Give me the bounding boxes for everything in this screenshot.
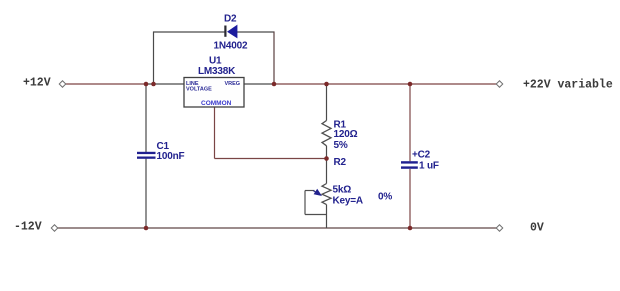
svg-text:VREG: VREG xyxy=(225,81,241,87)
svg-text:+12V: +12V xyxy=(23,77,51,90)
svg-text:5%: 5% xyxy=(334,140,348,151)
svg-text:1N4002: 1N4002 xyxy=(214,41,248,52)
svg-text:U1: U1 xyxy=(209,56,222,67)
svg-text:VOLTAGE: VOLTAGE xyxy=(186,87,212,93)
svg-text:+C2: +C2 xyxy=(412,150,431,161)
svg-text:1 uF: 1 uF xyxy=(419,161,439,172)
svg-text:5kΩ: 5kΩ xyxy=(333,185,352,196)
svg-text:120Ω: 120Ω xyxy=(334,129,358,140)
svg-text:+22V variable: +22V variable xyxy=(523,79,613,92)
svg-text:Key=A: Key=A xyxy=(333,196,363,207)
svg-text:100nF: 100nF xyxy=(157,151,185,162)
svg-text:R2: R2 xyxy=(334,157,347,168)
svg-text:COMMON: COMMON xyxy=(201,100,232,107)
svg-text:-12V: -12V xyxy=(14,221,42,234)
svg-text:0%: 0% xyxy=(378,192,392,203)
svg-text:0V: 0V xyxy=(530,222,544,235)
svg-text:LM338K: LM338K xyxy=(198,66,236,77)
svg-text:D2: D2 xyxy=(224,14,237,25)
